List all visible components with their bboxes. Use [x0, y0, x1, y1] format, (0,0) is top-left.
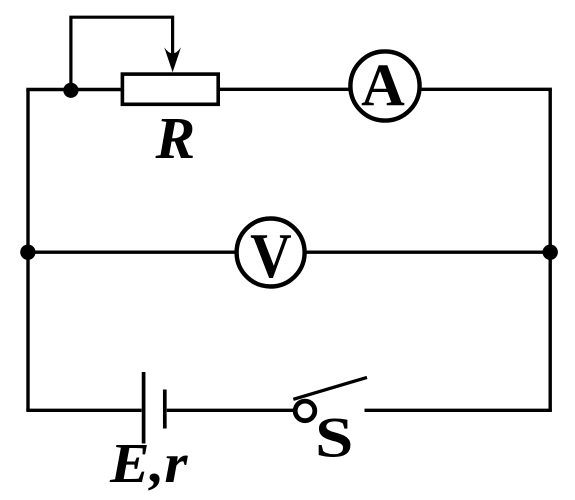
- voltmeter U (meter V): [237, 219, 305, 287]
- arrow wiper head: [164, 47, 181, 72]
- wire bottom: left corner to battery: [26, 409, 141, 412]
- wire middle: left node to voltmeter: [28, 250, 237, 253]
- wire bottom: switch to right corner: [365, 409, 552, 412]
- ammeter U (meter A): [350, 51, 419, 120]
- battery short plate: [163, 390, 167, 429]
- wire left vertical: [26, 90, 29, 411]
- wire wiper loop from node to arrow: [71, 17, 173, 89]
- resistor R (rheostat box): [122, 74, 218, 104]
- wire bottom: battery to switch: [167, 409, 293, 412]
- wire middle: voltmeter to right node: [304, 250, 550, 253]
- svg-text:R: R: [155, 105, 196, 171]
- node junction dot top-left: [63, 83, 78, 98]
- switch S pivot circle: [295, 401, 315, 421]
- battery long plate: [142, 372, 146, 444]
- svg-text:E,r: E,r: [109, 433, 189, 495]
- node junction dot middle-right: [543, 245, 558, 260]
- node junction dot middle-left: [20, 245, 35, 260]
- wire right vertical: [549, 89, 552, 410]
- wire top: rheostat to ammeter: [219, 88, 351, 91]
- wire top: ammeter to right corner: [419, 88, 552, 91]
- wire top: left corner to rheostat: [26, 88, 122, 91]
- svg-text:S: S: [315, 405, 353, 469]
- svg-text:A: A: [361, 52, 405, 119]
- switch S blade: [293, 377, 367, 399]
- svg-text:V: V: [250, 221, 292, 291]
